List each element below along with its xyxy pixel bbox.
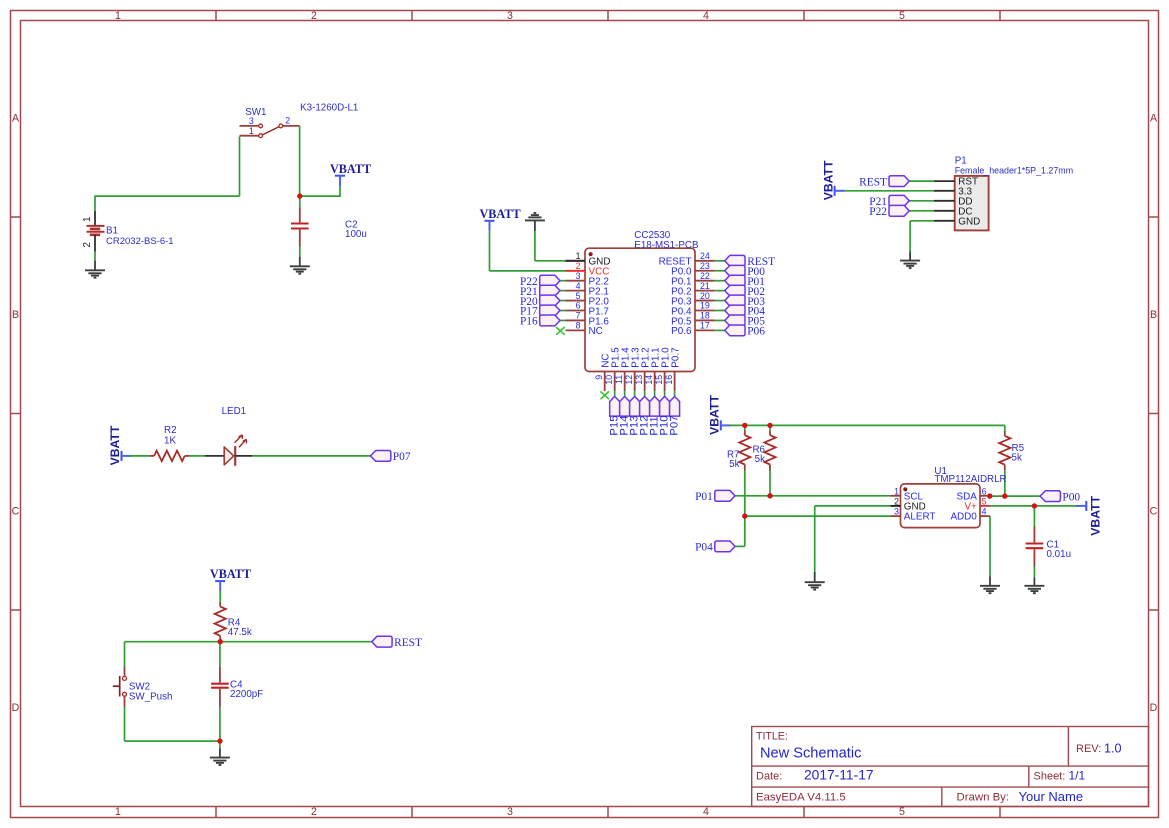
wire	[845, 190, 934, 192]
ground at B1	[94, 261, 96, 270]
CC2530 pin 3 P2.2	[566, 271, 609, 288]
power flag VBATT (R4)	[210, 567, 251, 591]
ground C4 symbol	[210, 758, 230, 765]
wire	[715, 329, 725, 331]
svg-text:VBATT: VBATT	[480, 207, 521, 221]
net flag P20	[520, 295, 560, 308]
svg-text:D: D	[1150, 702, 1158, 714]
net flag P01	[695, 490, 735, 503]
svg-text:19: 19	[700, 301, 710, 311]
svg-text:4: 4	[703, 806, 709, 818]
svg-text:100u: 100u	[345, 229, 367, 240]
svg-text:P07: P07	[668, 415, 680, 435]
P1 pin DC	[934, 206, 973, 217]
svg-text:0.01u: 0.01u	[1047, 549, 1072, 560]
wire	[534, 231, 536, 261]
svg-text:6: 6	[982, 486, 987, 496]
CC2530 pin 17 P0.6	[671, 321, 715, 338]
wire	[745, 515, 891, 517]
CC2530 pin 9 NC	[594, 353, 611, 391]
capacitor C4 plates	[211, 680, 263, 701]
junction R6 top	[767, 423, 772, 428]
net flag P15	[608, 396, 620, 435]
wire	[715, 260, 725, 262]
wire	[715, 290, 725, 292]
wire	[219, 591, 221, 602]
svg-text:TMP112AIDRLR: TMP112AIDRLR	[934, 474, 1006, 485]
wire	[219, 707, 221, 741]
svg-text:1: 1	[249, 126, 254, 136]
ground at ADD0	[989, 576, 991, 585]
wire	[744, 471, 746, 517]
net flag P01	[725, 275, 766, 288]
CC2530 pin 10 P1.5	[604, 347, 621, 391]
P1 pin 3.3	[934, 186, 973, 197]
net flag P11	[648, 396, 660, 435]
wire	[94, 252, 96, 261]
svg-text:13: 13	[634, 375, 644, 385]
svg-text:5: 5	[982, 496, 987, 506]
wire	[644, 391, 646, 396]
GND pin stub	[565, 260, 585, 262]
wire	[1004, 425, 1006, 431]
svg-text:6: 6	[576, 301, 581, 311]
svg-text:22: 22	[700, 271, 710, 281]
ground at U1 GND	[814, 572, 816, 582]
svg-text:P22: P22	[869, 206, 887, 218]
CC2530 pin 12 P1.3	[624, 347, 641, 391]
switch SW1	[240, 103, 359, 138]
wire	[124, 642, 126, 667]
wire	[814, 506, 816, 572]
svg-text:TITLE:: TITLE:	[756, 731, 788, 743]
wire	[815, 505, 891, 507]
svg-text:1/1: 1/1	[1069, 769, 1086, 783]
net flag P12	[638, 396, 650, 435]
net flag P05	[725, 315, 766, 328]
wire	[490, 270, 566, 272]
ground C2 symbol	[290, 266, 310, 273]
wire	[735, 495, 890, 497]
ground at C4	[219, 749, 221, 758]
svg-text:VBATT: VBATT	[108, 425, 122, 465]
junction R4/REST	[218, 639, 223, 644]
ground at CC2530 (inverted)	[525, 213, 545, 231]
CC2530 pin 6 P1.7	[566, 301, 609, 318]
svg-text:REV:: REV:	[1076, 743, 1101, 755]
wire	[769, 471, 771, 496]
CC2530 pin 18 P0.5	[671, 311, 715, 328]
svg-text:3: 3	[249, 116, 254, 126]
wire	[735, 545, 745, 547]
net flag REST	[725, 255, 775, 268]
svg-text:VBATT: VBATT	[821, 160, 835, 200]
wire	[715, 300, 725, 302]
CC2530 pin 11 P1.4	[614, 347, 631, 391]
junction R5/SDA	[1002, 493, 1007, 498]
ground at C1	[1033, 577, 1035, 586]
svg-text:LED1: LED1	[222, 406, 247, 417]
svg-text:24: 24	[700, 251, 710, 261]
wire	[299, 247, 301, 258]
svg-text:23: 23	[700, 261, 710, 271]
svg-text:5k: 5k	[729, 459, 739, 470]
svg-text:21: 21	[700, 281, 710, 291]
wire	[715, 310, 725, 312]
svg-text:ADD0: ADD0	[950, 512, 977, 523]
svg-text:7: 7	[576, 311, 581, 321]
net flag P02	[725, 285, 766, 298]
svg-text:E18-MS1-PCB: E18-MS1-PCB	[634, 240, 699, 251]
svg-text:K3-1260D-L1: K3-1260D-L1	[300, 103, 358, 114]
CC2530 pin 15 P1.0	[654, 347, 671, 391]
svg-text:B: B	[1150, 309, 1157, 321]
net flag P17	[520, 305, 560, 318]
no-connect pin 8	[556, 327, 565, 335]
svg-text:14: 14	[644, 375, 654, 385]
wire	[654, 391, 656, 396]
wire	[729, 424, 1005, 426]
ground U1 symbol	[805, 582, 825, 589]
ground B1 symbol	[85, 270, 105, 277]
wire	[634, 391, 636, 396]
battery B1	[82, 211, 174, 252]
svg-text:3: 3	[507, 10, 513, 22]
CC2530 pin 5 P2.0	[566, 291, 610, 308]
svg-text:EasyEDA V4.11.5: EasyEDA V4.11.5	[756, 792, 846, 804]
svg-text:P0.6: P0.6	[671, 326, 692, 337]
svg-text:P07: P07	[393, 451, 411, 463]
capacitor C4	[219, 666, 221, 683]
svg-text:2: 2	[311, 10, 317, 22]
net flag P07	[668, 396, 680, 435]
wire	[744, 425, 746, 430]
svg-text:4: 4	[982, 507, 987, 517]
ground P1 symbol	[900, 261, 920, 268]
wire	[769, 425, 771, 430]
wire	[990, 495, 1040, 497]
net flag P22 (P1)	[869, 205, 909, 218]
svg-text:New Schematic: New Schematic	[760, 746, 861, 762]
svg-text:P00: P00	[1062, 491, 1080, 503]
IC CC2530 E18-MS1-PCB body	[585, 230, 699, 372]
svg-text:2: 2	[82, 242, 93, 247]
U1 pin 1 SCL	[891, 486, 924, 502]
net flag P16	[520, 315, 560, 328]
wire	[674, 391, 676, 396]
net flag P22	[520, 275, 560, 288]
connector P1 Female_header1*5P_1.27mm	[955, 156, 1073, 231]
wire	[715, 270, 725, 272]
junction C4/ground	[217, 738, 222, 743]
svg-text:VBATT: VBATT	[1089, 495, 1103, 535]
wire	[664, 391, 666, 396]
net flag P00	[1040, 491, 1080, 504]
U1 pin 3 ALERT	[891, 507, 936, 523]
svg-text:P04: P04	[695, 542, 713, 554]
svg-text:2: 2	[894, 496, 899, 506]
U1 pin 2 GND	[891, 496, 926, 512]
svg-text:3: 3	[576, 271, 581, 281]
svg-text:3: 3	[507, 806, 513, 818]
wire	[990, 505, 1080, 507]
svg-text:P0.7: P0.7	[670, 347, 681, 367]
svg-text:15: 15	[654, 375, 664, 385]
svg-text:1: 1	[576, 251, 581, 261]
svg-text:P06: P06	[747, 326, 765, 338]
net flag P04	[725, 305, 766, 318]
svg-text:17: 17	[700, 321, 710, 331]
svg-text:5: 5	[899, 10, 905, 22]
wire	[715, 319, 725, 321]
net flag P14	[618, 396, 630, 435]
resistor R7	[727, 430, 750, 470]
power flag VBATT (C2)	[330, 162, 371, 186]
svg-text:SW_Push: SW_Push	[129, 692, 173, 703]
svg-text:Female_header1*5P_1.27mm: Female_header1*5P_1.27mm	[955, 166, 1073, 176]
svg-text:1: 1	[115, 806, 121, 818]
CC2530 pin 2 VCC	[566, 261, 610, 278]
svg-text:B: B	[12, 309, 19, 321]
title block	[752, 727, 1149, 807]
svg-text:A: A	[12, 113, 20, 125]
wire	[125, 740, 220, 742]
power flag VBATT (pullups)	[708, 395, 731, 435]
wire	[744, 516, 746, 546]
svg-text:R2: R2	[164, 425, 177, 436]
svg-text:11: 11	[614, 375, 624, 384]
svg-text:4: 4	[703, 10, 709, 22]
IC U1 TMP112AIDRLR body	[901, 466, 1007, 527]
net flag P00	[725, 265, 766, 278]
svg-text:5k: 5k	[1012, 452, 1022, 463]
CC2530 pin 21 P0.2	[671, 281, 715, 298]
power flag VBATT (LED row)	[108, 425, 131, 465]
svg-text:2: 2	[285, 116, 290, 126]
svg-text:NC: NC	[589, 326, 603, 337]
svg-text:ALERT: ALERT	[904, 512, 936, 523]
wire	[909, 180, 934, 182]
CC2530 pin 16 P0.7	[664, 347, 681, 391]
wire	[190, 455, 206, 457]
svg-text:C: C	[1150, 506, 1158, 518]
U1 pin 5 V+	[964, 496, 990, 512]
svg-text:P16: P16	[520, 316, 538, 328]
CC2530 pin 23 P0.0	[671, 261, 715, 278]
ground C1 symbol	[1024, 586, 1044, 593]
svg-text:1: 1	[894, 486, 899, 496]
capacitor C2 plates	[291, 219, 367, 240]
net flag P07	[371, 451, 411, 464]
net flag P10	[658, 396, 670, 435]
svg-text:2017-11-17: 2017-11-17	[804, 768, 874, 783]
svg-text:1: 1	[115, 10, 121, 22]
CC2530 pin 14 P1.1	[644, 347, 661, 391]
CC2530 pin 24 RESET	[659, 251, 715, 268]
P1 pin RST	[934, 177, 978, 188]
svg-text:GND: GND	[958, 216, 980, 227]
wire	[1033, 567, 1035, 578]
ground at C2	[299, 257, 301, 266]
junction R7/ALERT	[742, 513, 747, 518]
ground at P1	[909, 251, 911, 260]
CC2530 pin 19 P0.4	[671, 301, 715, 318]
svg-text:VBATT: VBATT	[708, 395, 722, 435]
power flag VBATT (U1 right)	[1076, 495, 1102, 535]
wire	[299, 196, 301, 207]
U1 pin 4 ADD0	[950, 507, 990, 523]
LED LED1	[205, 406, 252, 466]
svg-text:Sheet:: Sheet:	[1034, 770, 1066, 782]
wire	[129, 455, 149, 457]
no-connect pin 9	[600, 391, 609, 399]
wire	[299, 126, 301, 196]
svg-text:5: 5	[576, 291, 581, 301]
svg-text:2: 2	[576, 261, 581, 271]
net flag P13	[628, 396, 640, 435]
net flag P04	[695, 541, 735, 554]
capacitor C1	[1033, 527, 1035, 543]
svg-text:D: D	[12, 702, 20, 714]
net flag P06	[725, 325, 766, 338]
wire	[239, 137, 241, 197]
svg-text:1K: 1K	[164, 435, 176, 446]
junction SDA node	[987, 493, 992, 498]
svg-text:12: 12	[624, 375, 634, 385]
capacitor C1 plates	[1026, 539, 1071, 560]
junction R7 top	[742, 423, 747, 428]
svg-text:3: 3	[894, 507, 899, 517]
svg-text:18: 18	[700, 311, 710, 321]
CC2530 pin 1 GND	[566, 251, 611, 268]
wire	[125, 641, 372, 643]
wire	[1004, 471, 1006, 496]
wire	[715, 280, 725, 282]
power flag VBATT (CC2530)	[480, 207, 521, 231]
wire	[124, 707, 126, 742]
P1 pin GND	[934, 216, 980, 227]
wire	[909, 221, 911, 252]
wire	[219, 741, 221, 748]
U1 pin 6 SDA	[956, 486, 990, 502]
wire	[94, 195, 96, 211]
wire	[624, 391, 626, 396]
svg-text:1: 1	[82, 217, 93, 222]
junction R6/SCL	[767, 493, 772, 498]
svg-text:16: 16	[664, 375, 674, 385]
wire	[95, 195, 240, 197]
P1 pin DD	[934, 196, 973, 207]
svg-text:Date:: Date:	[756, 770, 782, 782]
junction C2/VBATT	[297, 193, 302, 198]
wire	[535, 260, 565, 262]
CC2530 pin 7 P1.6	[566, 311, 610, 328]
CC2530 pin 4 P2.1	[566, 281, 610, 298]
wire	[910, 220, 934, 222]
wire	[909, 200, 934, 202]
wire	[989, 516, 991, 576]
junction C1 top	[1032, 503, 1037, 508]
svg-text:CR2032-BS-6-1: CR2032-BS-6-1	[106, 236, 174, 247]
CC2530 pin 8 NC	[566, 321, 603, 338]
svg-text:P01: P01	[695, 491, 713, 503]
wire	[1033, 506, 1035, 527]
net flag REST	[372, 636, 422, 649]
svg-text:Drawn By:: Drawn By:	[957, 792, 1010, 804]
switch SW2	[113, 666, 173, 706]
svg-text:1.0: 1.0	[1104, 742, 1122, 756]
svg-text:REST: REST	[859, 176, 887, 188]
VCC pin stub	[565, 270, 585, 272]
svg-text:9: 9	[594, 375, 604, 380]
wire	[252, 455, 370, 457]
wire	[560, 280, 566, 282]
wire	[614, 391, 616, 396]
net flag P21	[520, 285, 560, 298]
svg-text:Your Name: Your Name	[1019, 789, 1084, 804]
svg-text:5k: 5k	[755, 454, 765, 465]
svg-text:VBATT: VBATT	[330, 162, 371, 176]
net flag REST (P1)	[859, 176, 909, 189]
resistor R5	[999, 431, 1024, 471]
svg-text:4: 4	[576, 281, 581, 291]
wire	[560, 310, 566, 312]
capacitor C2	[299, 208, 301, 223]
power flag VBATT (P1)	[821, 160, 844, 200]
wire	[560, 300, 566, 302]
wire	[489, 231, 491, 271]
wire	[560, 319, 566, 321]
net flag P03	[725, 295, 766, 308]
svg-text:47.5k: 47.5k	[228, 627, 252, 638]
svg-text:8: 8	[576, 321, 581, 331]
CC2530 pin 20 P0.3	[671, 291, 715, 308]
net flag P21 (P1)	[869, 195, 909, 208]
wire	[300, 195, 340, 197]
svg-text:VBATT: VBATT	[210, 567, 251, 581]
svg-text:C: C	[12, 506, 20, 518]
CC2530 pin 13 P1.2	[634, 347, 651, 391]
ground ADD0 symbol	[980, 586, 1000, 593]
resistor R6	[752, 430, 775, 470]
resistor R4	[215, 602, 252, 642]
wire	[560, 290, 566, 292]
wire	[909, 210, 934, 212]
svg-text:5: 5	[899, 806, 905, 818]
wire	[219, 642, 221, 666]
CC2530 pin 22 P0.1	[671, 271, 715, 288]
svg-text:20: 20	[700, 291, 710, 301]
resistor R2	[149, 425, 189, 461]
svg-text:A: A	[1150, 113, 1158, 125]
svg-text:2200pF: 2200pF	[230, 689, 263, 700]
wire	[339, 186, 341, 197]
svg-text:10: 10	[604, 375, 614, 385]
svg-text:2: 2	[311, 806, 317, 818]
svg-text:REST: REST	[394, 637, 422, 649]
